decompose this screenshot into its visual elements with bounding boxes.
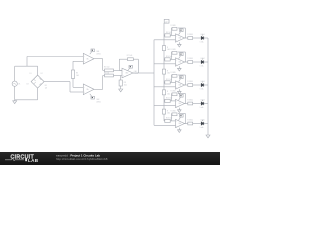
svg-text:R 330Ω: R 330Ω xyxy=(187,81,193,83)
svg-text:OA1: OA1 xyxy=(96,50,99,53)
svg-text:+: + xyxy=(176,40,177,42)
svg-text:1kΩ: 1kΩ xyxy=(167,113,171,115)
svg-text:OA3: OA3 xyxy=(125,72,128,75)
svg-text:OA: OA xyxy=(86,88,88,91)
svg-text:R11 1kΩ: R11 1kΩ xyxy=(166,79,173,81)
svg-text:5 mA: 5 mA xyxy=(200,64,205,67)
svg-text:R 1MΩ: R 1MΩ xyxy=(171,111,177,113)
svg-text:R: R xyxy=(167,70,169,72)
svg-text:−: − xyxy=(176,122,177,124)
svg-text:R6 1kΩ: R6 1kΩ xyxy=(104,73,110,75)
svg-text:B1: B1 xyxy=(45,85,47,87)
svg-text:1kΩ: 1kΩ xyxy=(167,93,171,95)
svg-text:R7 1kΩ: R7 1kΩ xyxy=(127,55,133,57)
svg-text:LM741: LM741 xyxy=(96,102,101,104)
svg-text:+: + xyxy=(123,75,124,77)
svg-text:R8: R8 xyxy=(124,82,126,84)
svg-text:R 1MΩ: R 1MΩ xyxy=(171,72,177,74)
svg-text:R 1MΩ: R 1MΩ xyxy=(171,49,177,51)
svg-text:V1: V1 xyxy=(18,84,20,86)
svg-text:−: − xyxy=(123,71,124,73)
svg-text:−: − xyxy=(176,60,177,62)
svg-text:R 1MΩ: R 1MΩ xyxy=(171,25,177,27)
svg-text:−: − xyxy=(84,57,85,59)
svg-text:R5 1kΩ: R5 1kΩ xyxy=(104,67,110,69)
svg-text:+: + xyxy=(84,61,85,63)
svg-text:+: + xyxy=(176,105,177,107)
svg-text:1kΩ: 1kΩ xyxy=(76,75,80,77)
svg-text:LED2: LED2 xyxy=(201,58,205,60)
svg-text:−: − xyxy=(176,36,177,38)
svg-text:OA8: OA8 xyxy=(178,122,181,125)
svg-text:R 330Ω: R 330Ω xyxy=(187,58,193,60)
svg-text:D3: D3 xyxy=(27,84,29,86)
svg-text:R3: R3 xyxy=(76,73,78,75)
svg-text:1kΩ: 1kΩ xyxy=(124,85,128,87)
svg-text:5 mA: 5 mA xyxy=(200,106,205,109)
svg-text:R13 1kΩ: R13 1kΩ xyxy=(166,117,173,119)
svg-text:LED1: LED1 xyxy=(201,34,205,36)
svg-text:OA6: OA6 xyxy=(178,84,181,87)
svg-text:−: − xyxy=(176,102,177,104)
svg-text:5 mA: 5 mA xyxy=(200,87,205,90)
svg-text:R 330Ω: R 330Ω xyxy=(187,34,193,36)
svg-text:R: R xyxy=(167,110,169,112)
svg-text:http://circuitlab.com/c/17q64b: http://circuitlab.com/c/17q64ba69zmb8 xyxy=(56,157,108,161)
svg-text:5 mA: 5 mA xyxy=(200,40,205,43)
svg-text:R 330Ω: R 330Ω xyxy=(187,120,193,122)
svg-text:OA2: OA2 xyxy=(96,98,99,101)
svg-text:R 330Ω: R 330Ω xyxy=(187,100,193,102)
svg-text:R12 1kΩ: R12 1kΩ xyxy=(166,97,173,99)
svg-text:D1: D1 xyxy=(30,73,32,75)
svg-text:LED5: LED5 xyxy=(201,119,205,121)
svg-text:LED3: LED3 xyxy=(201,81,205,83)
svg-text:LAB: LAB xyxy=(28,158,39,163)
svg-text:R: R xyxy=(167,91,169,93)
svg-text:+: + xyxy=(176,87,177,89)
svg-text:+5V: +5V xyxy=(165,21,168,23)
svg-text:R 1MΩ: R 1MΩ xyxy=(171,91,177,93)
svg-text:D2: D2 xyxy=(41,73,43,75)
svg-text:R: R xyxy=(167,47,169,49)
svg-text:+: + xyxy=(176,125,177,127)
svg-text:OA7: OA7 xyxy=(178,102,181,105)
svg-text:R10 1kΩ: R10 1kΩ xyxy=(166,56,173,58)
svg-text:+: + xyxy=(84,91,85,93)
svg-text:−: − xyxy=(176,83,177,85)
svg-text:LED4: LED4 xyxy=(201,99,205,101)
svg-text:OA: OA xyxy=(86,57,88,60)
svg-text:OA4: OA4 xyxy=(178,37,181,40)
svg-text:OA5: OA5 xyxy=(178,61,181,64)
svg-text:OA3: OA3 xyxy=(134,70,137,73)
svg-text:5 mA: 5 mA xyxy=(200,126,205,129)
svg-text:LM741: LM741 xyxy=(96,54,101,56)
svg-text:−: − xyxy=(84,87,85,89)
svg-text:+: + xyxy=(176,64,177,66)
